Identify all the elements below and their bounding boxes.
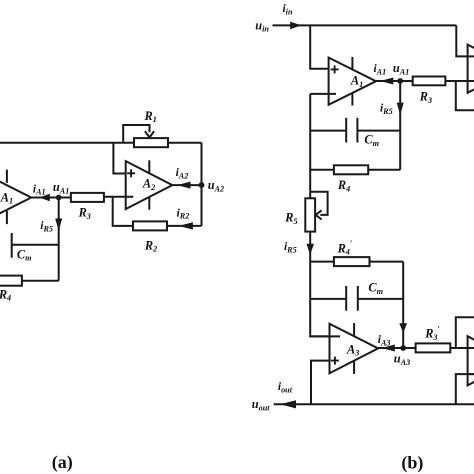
svg-text:R5: R5 bbox=[284, 211, 297, 226]
capacitor Cm right plate bbox=[11, 233, 13, 258]
A3 minus input line (crosses into triangle) bbox=[310, 335, 340, 337]
op-amp (cut, top right) bbox=[468, 45, 474, 93]
wire: A3 + input from uout row bbox=[311, 361, 330, 405]
capacitor Cm (b) right plate bbox=[356, 118, 358, 143]
capacitor Cm' left plate bbox=[345, 286, 347, 311]
wire: A2 inverting input from R3 (crosses into triangle) bbox=[104, 196, 134, 198]
node uA2 bbox=[199, 182, 205, 188]
current arrow iA1 bbox=[39, 194, 50, 202]
wire: stub + input inside cut op-amp bbox=[468, 55, 474, 57]
wire: A1 inverting input bbox=[310, 93, 336, 95]
wire: A2 inverting drop to R2 row bbox=[113, 197, 133, 226]
current arrow iout bbox=[280, 400, 296, 408]
current arrow iR5 bbox=[55, 219, 62, 231]
wire: left vertical from A1 inverting down to R5 bbox=[309, 94, 311, 198]
A2 power pin bottom bbox=[148, 197, 150, 210]
current arrow iA3 bbox=[381, 345, 394, 352]
wire: R4' row bbox=[310, 261, 403, 263]
op-amp (cut, bottom right) bbox=[468, 336, 474, 385]
A2 power pin top bbox=[148, 160, 150, 173]
svg-text:Cm: Cm bbox=[17, 247, 32, 262]
capacitor Cm' right plate bbox=[357, 286, 359, 311]
wire: R2 right wire bbox=[167, 225, 202, 227]
A1 power pin top bbox=[351, 57, 353, 70]
A3 power pin bottom bbox=[353, 361, 355, 374]
node uA3 bbox=[400, 345, 406, 351]
svg-text:uout: uout bbox=[252, 397, 270, 412]
wire: R1 wiper loop bbox=[123, 125, 149, 143]
svg-text:iR5: iR5 bbox=[40, 220, 53, 233]
A3 power pin top bbox=[353, 323, 355, 336]
wire: uout loop up to cut op-amp + input bbox=[456, 374, 474, 404]
svg-text:iout: iout bbox=[278, 381, 293, 394]
svg-text:uA2: uA2 bbox=[208, 178, 224, 193]
wire: junction down to A1 + input bbox=[310, 25, 328, 68]
wire: A2 + input feed from top wire bbox=[113, 143, 125, 174]
current arrow iR5 (b top) bbox=[397, 103, 404, 115]
wire: A1 output to node uA1 bbox=[376, 80, 400, 82]
node uA1 bbox=[56, 195, 62, 201]
A3 plus symbol bbox=[331, 357, 339, 365]
current arrow iR5 (b bottom) bbox=[306, 244, 314, 255]
wire: stub - input inside cut op-amp bbox=[468, 80, 474, 82]
wire: right vertical R4'/Cm' down to node uA3 bbox=[402, 262, 404, 348]
wire: R5 bottom vertical down to A3 inverting bbox=[310, 232, 340, 337]
wire: R5 wiper loop bbox=[310, 192, 327, 215]
svg-text:R1: R1 bbox=[144, 109, 157, 124]
current arrow into uA3 bbox=[399, 323, 407, 333]
svg-text:R3′: R3′ bbox=[424, 325, 440, 343]
wire: Cm' row bbox=[310, 298, 403, 300]
current arrow iA1 (b) bbox=[380, 78, 393, 85]
wire: (a) R1 right wire to uA2 branch bbox=[168, 142, 202, 144]
wire: uA1 vertical down to R4 row bbox=[58, 198, 60, 281]
svg-text:iA1: iA1 bbox=[374, 63, 387, 76]
op-amp A3 bbox=[330, 324, 379, 374]
wire: stub - input inside cut op-amp bottom bbox=[468, 347, 474, 349]
resistor R3 bbox=[71, 193, 104, 202]
wire: Cm to vertical bbox=[12, 244, 59, 246]
resistor R4 (cut at left) bbox=[0, 276, 22, 286]
svg-text:iR5: iR5 bbox=[284, 241, 297, 254]
R1 wiper arrow bbox=[145, 131, 154, 137]
resistor R4 (b) bbox=[334, 165, 368, 174]
wire: R3' row bbox=[403, 347, 474, 349]
R5 wiper arrow bbox=[316, 210, 322, 219]
svg-text:uA1: uA1 bbox=[53, 180, 69, 195]
svg-text:iA2: iA2 bbox=[176, 167, 189, 180]
svg-text:(a): (a) bbox=[52, 452, 73, 473]
A2 plus symbol bbox=[127, 169, 135, 177]
current arrow iR2 bbox=[179, 222, 193, 229]
wire: A1 output to node uA1 bbox=[31, 197, 71, 199]
op-amp A2 bbox=[126, 161, 173, 209]
wire: Cm (b) row bbox=[310, 130, 400, 132]
wire: R3 row drop to feedback row bbox=[456, 81, 474, 110]
svg-text:R4: R4 bbox=[0, 287, 11, 302]
op-amp A1 (b) bbox=[329, 58, 376, 105]
wire: R3' row up to feedback row bbox=[456, 317, 474, 348]
svg-text:R4′: R4′ bbox=[337, 239, 353, 257]
capacitor Cm (b) left plate bbox=[345, 118, 347, 143]
wire: uA1 vertical down bbox=[399, 81, 401, 170]
svg-text:iR2: iR2 bbox=[177, 207, 190, 220]
svg-text:R2: R2 bbox=[144, 238, 157, 253]
svg-text:(b): (b) bbox=[401, 453, 423, 474]
resistor R1 (potentiometer body) bbox=[134, 138, 168, 147]
node uA1 (b) bbox=[397, 78, 403, 84]
wire: stub + input inside cut op-amp bottom bbox=[468, 373, 474, 375]
A1 power pin top bbox=[6, 170, 8, 183]
svg-text:Cm: Cm bbox=[368, 281, 383, 296]
svg-text:Cm: Cm bbox=[364, 133, 379, 148]
potentiometer R5 body bbox=[305, 198, 315, 231]
resistor R2 bbox=[133, 221, 167, 230]
wire: uA2 vertical branch bbox=[201, 143, 203, 226]
svg-text:R3: R3 bbox=[419, 90, 432, 105]
svg-text:uA3: uA3 bbox=[394, 352, 410, 367]
A1 power pin bottom bbox=[351, 93, 353, 106]
current arrow iin bbox=[290, 22, 301, 30]
wire: uout row bbox=[274, 403, 474, 405]
resistor R3' bbox=[416, 343, 451, 352]
wire: top wire down to cut op-amp + input bbox=[456, 25, 474, 56]
wire: R4 to vertical bbox=[22, 280, 59, 282]
A1 power pin bottom bbox=[6, 211, 8, 224]
wire: A3 output to node uA3 bbox=[378, 347, 403, 349]
svg-text:iA1: iA1 bbox=[33, 183, 46, 196]
svg-text:iin: iin bbox=[283, 3, 293, 16]
wire: uin top wire bbox=[273, 24, 457, 26]
svg-text:iA3: iA3 bbox=[378, 334, 391, 347]
svg-text:R3: R3 bbox=[78, 206, 91, 221]
svg-text:uA1: uA1 bbox=[393, 61, 409, 76]
wire: R3 right to cut op-amp inverting bbox=[400, 80, 474, 82]
wire: A2 output to node uA2 bbox=[172, 184, 201, 186]
resistor R3 (b) bbox=[413, 77, 446, 86]
wire: (a) top feedback wire bbox=[0, 142, 134, 144]
current arrow iA2 bbox=[177, 182, 190, 189]
wire: R4 (b) row bbox=[310, 169, 400, 171]
op-amp A1 (cut at left edge) bbox=[0, 174, 31, 222]
A1 plus symbol bbox=[331, 65, 339, 73]
resistor R4' bbox=[334, 257, 370, 266]
svg-text:uin: uin bbox=[255, 18, 269, 33]
svg-text:R4: R4 bbox=[337, 178, 350, 193]
svg-text:iR5: iR5 bbox=[380, 103, 393, 116]
